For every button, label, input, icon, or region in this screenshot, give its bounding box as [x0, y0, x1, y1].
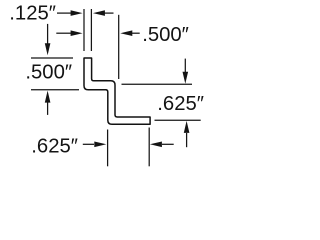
.500 left: lower extension line (bottom edge of step): [31, 89, 79, 91]
.625 right: top reference line: [122, 83, 193, 85]
.500 top dimension arrow pointing left (row 2): [120, 30, 139, 36]
.625 bottom: arrow pointing right: [83, 142, 107, 148]
extension line for .500 top (right side of web): [118, 15, 120, 79]
svg-text:.125″: .125″: [9, 2, 56, 24]
.500 left: up arrow: [45, 91, 51, 115]
.625 right: bottom reference line (top edge of bottom leg): [155, 119, 201, 121]
.500 top dimension arrow pointing right (row 2): [56, 30, 82, 36]
svg-text:.500″: .500″: [142, 24, 189, 46]
extension line right of .125 thickness: [90, 9, 92, 51]
extension line left of .125 thickness: [83, 9, 85, 51]
.625 right: up arrow: [184, 121, 190, 147]
.625 bottom: arrow pointing left: [150, 142, 174, 148]
svg-text:.625″: .625″: [31, 136, 78, 158]
.625 right: down arrow: [183, 59, 189, 84]
svg-text:.500″: .500″: [25, 62, 72, 84]
Z-bar part outline: [84, 58, 150, 124]
.500 left: down arrow: [45, 24, 51, 55]
svg-text:.625″: .625″: [157, 93, 204, 115]
.625 bottom: right extension line: [148, 128, 150, 167]
.125 opposing arrow pointing left (row 1): [93, 10, 114, 16]
.625 bottom: left extension line: [107, 130, 109, 167]
.125 leader arrow pointing right (row 1): [57, 10, 83, 16]
.500 left: upper extension line (top edge of part): [31, 57, 73, 59]
